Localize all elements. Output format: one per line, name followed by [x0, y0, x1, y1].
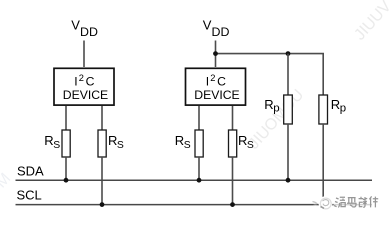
node junction rail/Rp1: [286, 51, 291, 56]
wire Rs1 to SDA: [65, 157, 67, 180]
watermark logo seal: [313, 196, 333, 210]
svg-text:2: 2: [210, 73, 215, 83]
svg-text:C: C: [86, 75, 95, 89]
svg-text:p: p: [273, 102, 279, 114]
label VDD (device 2): [203, 18, 230, 40]
wire Rp1 to SDA: [287, 124, 289, 180]
wire Rs3 to SDA: [198, 157, 200, 180]
svg-text:S: S: [184, 140, 191, 151]
svg-text:S: S: [53, 140, 60, 151]
resistor Rs2: [98, 130, 106, 157]
wire VDD rail to pull-ups: [216, 54, 324, 95]
resistor Rs4: [229, 130, 237, 157]
svg-text:I: I: [74, 75, 77, 89]
label Rp2: [331, 97, 346, 115]
svg-text:S: S: [117, 140, 124, 151]
resistor Rs3: [195, 130, 203, 157]
svg-text:p: p: [340, 102, 346, 114]
I2C device U1 box: [54, 68, 114, 105]
node Rp1/SDA: [286, 178, 291, 183]
node Rs2/SCL: [100, 202, 105, 207]
wire Rs2 to SCL: [101, 157, 103, 205]
wire VDD1 to U1: [83, 41, 85, 68]
resistor Rp1: [284, 95, 293, 124]
wire rail to Rp1: [287, 54, 289, 95]
label VDD (device 1): [71, 18, 98, 40]
label Rp1: [264, 97, 279, 115]
svg-text:DEVICE: DEVICE: [194, 88, 239, 102]
watermark text 海马硬件: [334, 196, 380, 208]
wire U1 pin2 to Rs2: [101, 106, 103, 130]
label Rs2: [108, 133, 124, 151]
svg-text:SDA: SDA: [17, 163, 44, 178]
svg-text:I: I: [206, 75, 209, 89]
node junction VDD2/rail: [213, 51, 218, 56]
wire Rp2 to SCL: [322, 124, 324, 205]
bus wire SDA: [16, 179, 373, 181]
label I2C (U2): [206, 73, 226, 89]
label Rs4: [238, 133, 254, 151]
resistor Rp2: [319, 95, 328, 124]
label Rs3: [175, 133, 191, 151]
svg-text:DD: DD: [80, 25, 98, 39]
wire U1 pin1 to Rs1: [65, 106, 67, 130]
svg-text:2: 2: [79, 73, 84, 83]
wire VDD2 down to U2: [215, 41, 217, 68]
svg-text:V: V: [71, 18, 80, 33]
resistor Rs1: [62, 130, 70, 157]
svg-text:SCL: SCL: [17, 188, 42, 203]
svg-text:DEVICE: DEVICE: [63, 88, 108, 102]
wire U2 pin1 to Rs3: [198, 106, 200, 130]
wire Rs4 to SCL: [232, 157, 234, 205]
wire U2 pin2 to Rs4: [232, 106, 234, 130]
label Rs1: [44, 133, 60, 151]
node Rs4/SCL: [230, 202, 235, 207]
node Rs3/SDA: [197, 178, 202, 183]
label I2C (U1): [74, 73, 94, 89]
bus wire SCL: [16, 204, 373, 206]
svg-text:C: C: [217, 75, 226, 89]
I2C device U2 box: [186, 68, 246, 105]
svg-text:DD: DD: [212, 25, 230, 39]
node Rs1/SDA: [64, 178, 69, 183]
svg-text:S: S: [247, 140, 254, 151]
svg-text:V: V: [203, 18, 212, 33]
